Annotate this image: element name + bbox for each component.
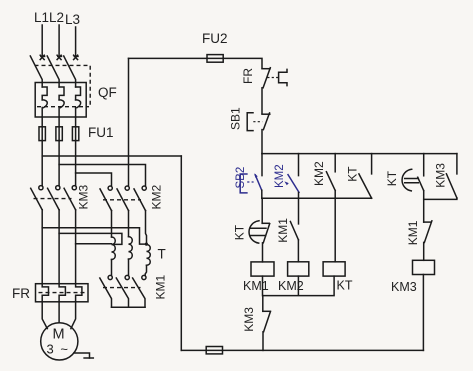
wire control feed down to KM2 pole2 bbox=[128, 58, 130, 185]
wire KM3 coil to bottom rail bbox=[422, 275, 424, 351]
thermal relay FR heater pole 1 bbox=[42, 284, 48, 302]
wire control left rail down bbox=[180, 156, 182, 350]
wire phase1 tap to control rail bbox=[42, 155, 181, 157]
wire tap A phase1 line to winding3 tap bbox=[42, 228, 146, 244]
svg-text:FU2: FU2 bbox=[202, 31, 228, 46]
wire phase3 FU1 to KM3 bbox=[75, 141, 77, 186]
contact KM3 auxiliary seal-in bbox=[446, 154, 457, 198]
wire KM3 pole2 output to FR bbox=[58, 210, 60, 284]
svg-text:KT: KT bbox=[385, 170, 399, 186]
wire KT contact to KM1 coil bbox=[262, 243, 264, 262]
ground symbol bbox=[74, 353, 93, 358]
svg-text:SB1: SB1 bbox=[228, 107, 242, 130]
thermal relay FR dashed linkage bbox=[39, 292, 85, 294]
svg-text:KM2: KM2 bbox=[274, 164, 286, 188]
wire KM2 branch to KT coil bbox=[334, 191, 336, 262]
wire QF to FU1 pole 2 bbox=[58, 117, 60, 127]
svg-text:KM2: KM2 bbox=[150, 185, 164, 210]
fuse FU1 pole 3 bbox=[72, 127, 78, 141]
svg-text:KM2: KM2 bbox=[312, 161, 326, 186]
wire control bottom rail bbox=[181, 349, 423, 351]
contactor KM1 star contacts bbox=[100, 275, 146, 307]
svg-text:QF: QF bbox=[98, 85, 117, 100]
svg-text:FU1: FU1 bbox=[88, 125, 114, 140]
wire L2 incoming with arrow bbox=[57, 25, 61, 60]
svg-text:L3: L3 bbox=[65, 12, 80, 27]
coil KT bbox=[323, 262, 345, 276]
wire L3 incoming with arrow bbox=[74, 27, 78, 60]
svg-text:L1: L1 bbox=[34, 10, 49, 25]
svg-text:T: T bbox=[158, 247, 166, 262]
svg-text:KM1: KM1 bbox=[276, 218, 290, 243]
fuse FU1 pole 1 bbox=[39, 127, 45, 141]
contactor KM3 main contacts bbox=[31, 186, 77, 210]
contact KM2 auxiliary (black) bbox=[326, 154, 335, 191]
wire FR contact to SB1 bbox=[261, 88, 263, 114]
svg-text:KT: KT bbox=[337, 278, 353, 292]
coil KM3 bbox=[413, 260, 435, 274]
wire KM1 NC to KM3 coil bbox=[423, 242, 425, 260]
svg-text:KM1: KM1 bbox=[243, 279, 269, 293]
contact KM1 NC interlock in KM3 branch bbox=[424, 199, 432, 242]
contact FR normally-closed bbox=[262, 68, 287, 88]
svg-text:KM3: KM3 bbox=[77, 185, 91, 210]
node junction dot winding3 tap bbox=[145, 243, 148, 246]
svg-text:FR: FR bbox=[241, 68, 255, 84]
coil KM1 bbox=[251, 262, 274, 276]
svg-text:L2: L2 bbox=[49, 10, 64, 25]
wire KM3 pole3 output to FR bbox=[75, 210, 77, 284]
wire QF to FU1 pole 3 bbox=[75, 117, 77, 127]
svg-text:KM3: KM3 bbox=[433, 163, 447, 188]
wire phase2 FU1 to KM3 bbox=[58, 141, 60, 186]
motor M circle bbox=[41, 323, 78, 360]
contact KT delayed NC with time symbol in KM1 branch bbox=[249, 198, 270, 243]
coil KM2 bbox=[288, 262, 309, 276]
wire KM2 pole1 to transformer winding1 bbox=[111, 211, 113, 237]
wire tap B phase2 line to winding1 tap bbox=[59, 233, 122, 244]
wire winding1 to KM1 bbox=[111, 260, 113, 276]
button SB2 start normally-open (blue) bbox=[240, 154, 262, 193]
wire QF to FU1 pole 1 bbox=[41, 117, 43, 127]
contact KM1 auxiliary in KM2 branch bbox=[290, 198, 298, 240]
breaker QF switch blade pole 3 bbox=[64, 56, 76, 87]
contact KT instantaneous normally-open bbox=[359, 154, 372, 199]
wire FU2 to FR contact bbox=[223, 58, 262, 67]
wire L1 incoming with arrow bbox=[40, 25, 44, 60]
transformer T winding 3 bbox=[147, 245, 151, 266]
fuse FU1 pole 2 bbox=[56, 127, 62, 141]
contact KM2 auxiliary seal-in (blue) bbox=[284, 154, 299, 193]
breaker QF switch blade pole 1 bbox=[30, 56, 42, 87]
breaker QF dashed trip linkage line bbox=[37, 106, 89, 108]
thermal relay FR heater pole 3 bbox=[76, 284, 82, 302]
wire control top to FU2 bbox=[129, 57, 208, 59]
breaker QF thermal unit box bbox=[35, 83, 86, 118]
svg-text:KM1: KM1 bbox=[154, 275, 168, 300]
svg-text:3 ~: 3 ~ bbox=[47, 342, 70, 357]
svg-text:FR: FR bbox=[12, 286, 30, 301]
wire phase3 tap to KM2 pole1 bbox=[76, 173, 112, 185]
breaker QF thermal element pole 3 bbox=[76, 87, 81, 117]
svg-text:KM1: KM1 bbox=[406, 220, 420, 245]
wire node B link bbox=[424, 191, 457, 200]
wire phase1 FU1 to KM3 bbox=[41, 141, 43, 186]
thermal relay FR heater box bbox=[36, 284, 89, 302]
svg-text:KT: KT bbox=[232, 224, 246, 240]
wire KM2 pole3 to transformer winding3 bbox=[146, 211, 147, 245]
wire KM1 contact to KM2 coil bbox=[297, 240, 299, 262]
wire FR to motor lead 3 bbox=[71, 302, 76, 329]
wire tap C phase3 line to winding1 tap bbox=[76, 243, 112, 245]
wire KM2 pole2 to transformer winding2 bbox=[128, 211, 130, 237]
svg-text:SB2: SB2 bbox=[235, 167, 247, 189]
wire blue KM2 to node A bbox=[298, 192, 300, 198]
svg-text:M: M bbox=[53, 327, 65, 343]
wire FR to motor lead 2 bbox=[58, 302, 60, 323]
thermal relay FR heater pole 2 bbox=[59, 284, 65, 302]
contact KM3 auxiliary to bottom rail bbox=[263, 296, 271, 351]
wire FR to motor lead 1 bbox=[42, 302, 47, 329]
transformer T winding 2 bbox=[129, 237, 133, 260]
breaker QF switch blade pole 2 bbox=[47, 56, 59, 87]
fuse control bottom bbox=[206, 347, 222, 354]
svg-text:KM2: KM2 bbox=[278, 279, 304, 293]
contactor KM2 main contacts bbox=[100, 186, 146, 211]
wire SB2 to node A bbox=[261, 190, 263, 198]
wire winding3 to KM1 bbox=[145, 265, 146, 275]
wire node A horizontal link bbox=[262, 197, 372, 199]
svg-text:KM3: KM3 bbox=[242, 307, 256, 332]
svg-text:KM3: KM3 bbox=[391, 280, 417, 294]
breaker QF thermal element pole 1 bbox=[42, 87, 47, 117]
breaker QF dashed linkage enclosure bbox=[35, 65, 91, 106]
wire coil bottoms common bbox=[263, 276, 335, 296]
transformer T winding 1 bbox=[112, 237, 116, 260]
contact KT delayed normally-open (on-delay) bbox=[402, 154, 424, 191]
svg-text:KT: KT bbox=[346, 166, 360, 182]
fuse FU2 bbox=[207, 55, 223, 63]
wire SB1 to bus bbox=[261, 130, 263, 154]
wire phase2 tap to KM2 pole3 bbox=[59, 165, 145, 186]
wire control bus horizontal bbox=[262, 153, 457, 155]
wire KM3 pole1 output to FR bbox=[41, 210, 43, 284]
breaker QF thermal element pole 2 bbox=[59, 87, 64, 117]
wire winding2 to KM1 bbox=[128, 259, 130, 275]
button SB1 stop normally-closed bbox=[247, 113, 270, 131]
